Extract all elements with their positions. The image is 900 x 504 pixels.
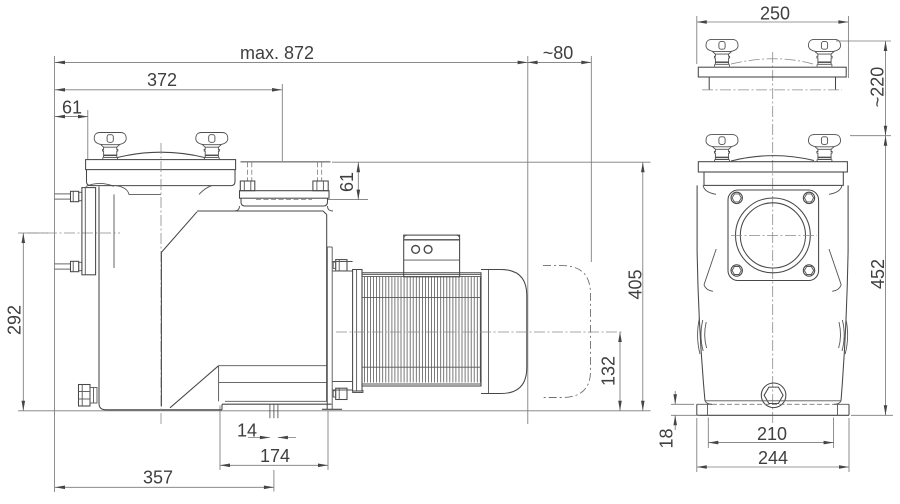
svg-text:210: 210 bbox=[757, 424, 787, 444]
dimension 250 extensions bbox=[696, 16, 698, 64]
upper lid lower plate phantom bottom bbox=[702, 89, 842, 91]
lower lid top plate bbox=[698, 162, 847, 172]
body bottom edge bbox=[705, 400, 841, 402]
dimension ~80 arrows bbox=[528, 61, 538, 65]
svg-text:61: 61 bbox=[337, 172, 357, 192]
dimension 452 arrows bbox=[884, 136, 888, 146]
strainer lid clamp ring bbox=[87, 170, 236, 186]
dimension 292 line bbox=[22, 233, 24, 411]
dimension 452 line bbox=[885, 136, 887, 416]
motor axis centreline bbox=[336, 331, 624, 333]
lower lid knob 2 bbox=[809, 135, 841, 162]
suction flange plate bbox=[82, 188, 96, 275]
dimension max. 872 line bbox=[55, 61, 528, 63]
svg-text:244: 244 bbox=[758, 448, 788, 468]
discharge cover plate bbox=[240, 191, 330, 199]
dimension 174 line bbox=[220, 464, 328, 466]
svg-text:292: 292 bbox=[4, 305, 24, 335]
svg-text:14: 14 bbox=[237, 421, 257, 441]
terminal box glands bbox=[412, 246, 420, 254]
dimension 250 line bbox=[697, 21, 849, 23]
dimension 174 arrows bbox=[220, 464, 230, 468]
extension line x=282 (discharge centre) bbox=[281, 84, 283, 161]
volute lower step bbox=[219, 365, 327, 367]
discharge cover top edge bbox=[241, 161, 331, 163]
volute bottom / foot bbox=[221, 404, 223, 410]
volute top edge bbox=[197, 211, 327, 215]
flange bolt bottom-left bbox=[731, 265, 742, 276]
drain spigot bbox=[269, 404, 271, 418]
svg-text:357: 357 bbox=[143, 468, 173, 488]
strainer lid top plate bbox=[86, 160, 236, 170]
dimension 61 arrows bbox=[55, 115, 65, 119]
dimension 14 arrows bbox=[260, 436, 270, 440]
svg-text:61: 61 bbox=[62, 98, 82, 118]
port horizontal centreline bbox=[731, 234, 817, 236]
flange bolt bottom bbox=[336, 388, 347, 399]
volute lower step 2 bbox=[219, 381, 327, 383]
discharge cover lower band bbox=[241, 198, 328, 206]
body side pocket left bbox=[698, 318, 700, 354]
dimension 132 arrows bbox=[618, 332, 622, 342]
svg-text:18: 18 bbox=[657, 428, 677, 448]
body lug top-right bbox=[829, 185, 842, 194]
dimension 61 line bbox=[55, 116, 88, 118]
dimension 405 arrows bbox=[641, 162, 645, 172]
body chamfer left bbox=[704, 249, 716, 285]
dimension 452 extension bbox=[851, 414, 893, 416]
tank neck fillet right bbox=[199, 186, 212, 195]
svg-text:132: 132 bbox=[599, 356, 619, 386]
tank drain boss bbox=[79, 385, 91, 407]
volute front diagonal bbox=[161, 212, 197, 253]
dimension 132 line bbox=[619, 332, 621, 411]
extended motor dashed outline bbox=[543, 266, 591, 398]
dimension 18 extensions bbox=[671, 403, 694, 405]
dimension 250 arrows bbox=[697, 20, 707, 24]
dimension 405 line bbox=[642, 162, 644, 411]
dimension 174 extensions bbox=[219, 406, 221, 471]
svg-text:405: 405 bbox=[625, 269, 645, 299]
flange bolt top-left bbox=[731, 192, 742, 203]
dimension 292 extension bbox=[18, 232, 48, 234]
base plate bottom bbox=[697, 414, 849, 416]
suction flange stud 1 bbox=[55, 193, 71, 195]
svg-text:372: 372 bbox=[147, 70, 177, 90]
svg-text:174: 174 bbox=[260, 446, 290, 466]
port outer circle bbox=[736, 198, 811, 273]
suction flange stud 2 bbox=[55, 263, 71, 265]
dimension 61r line bbox=[357, 162, 359, 199]
dimension 357 extension bbox=[273, 470, 275, 492]
dimension ~220 arrows bbox=[884, 41, 888, 51]
dimension 292 arrows bbox=[22, 233, 26, 243]
dimension 244 line bbox=[697, 466, 849, 468]
dimension 18 line bbox=[674, 391, 676, 404]
upper lid knob 2 bbox=[809, 39, 841, 66]
upper lid lower plate bbox=[708, 77, 710, 90]
motor body bbox=[362, 273, 481, 386]
svg-text:~80: ~80 bbox=[543, 43, 574, 63]
suction flange nut 2 bbox=[71, 261, 79, 271]
discharge cover nut right bbox=[313, 181, 328, 191]
upper lid dome (phantom) bbox=[731, 59, 813, 64]
motor body bands bbox=[362, 274, 481, 276]
discharge cover hidden studs bbox=[247, 162, 249, 181]
lower lid dome bbox=[731, 156, 814, 161]
volute front edge bbox=[160, 252, 162, 406]
dimension ~220 extensions bbox=[836, 40, 891, 42]
flange bolt top bbox=[336, 260, 347, 271]
tank centreline bbox=[160, 143, 162, 424]
extension line y=162 (pump top level) bbox=[332, 161, 651, 163]
dimension 61r extension bbox=[328, 199, 368, 201]
dimension 372 arrows bbox=[55, 88, 65, 92]
strainer lid dome bbox=[117, 152, 205, 157]
dimension ~220 line bbox=[885, 41, 887, 136]
dimension 210 line bbox=[708, 442, 833, 444]
motor cooling fins bbox=[363, 277, 365, 383]
extension line x=591 (extended motor end) bbox=[590, 56, 592, 262]
discharge cover nut left bbox=[240, 181, 255, 191]
dimension 372 line bbox=[55, 89, 282, 91]
lower lid lower plate bbox=[704, 172, 843, 185]
base plate steps bbox=[707, 404, 709, 415]
upper lid knob 1 bbox=[706, 39, 738, 66]
suction flange square bbox=[728, 190, 819, 281]
flange bolt bottom-right bbox=[803, 265, 814, 276]
svg-text:452: 452 bbox=[868, 259, 888, 289]
volute lower diagonal bbox=[170, 366, 219, 408]
dimension 210 arrows bbox=[708, 441, 718, 445]
strainer tank wall bbox=[99, 187, 222, 410]
motor adapter bbox=[332, 270, 352, 272]
discharge cover hidden joint bbox=[256, 199, 312, 201]
tank shoulder left bbox=[86, 183, 114, 186]
port inner circle bbox=[740, 203, 805, 268]
motor end cap bbox=[480, 273, 482, 386]
drain plug bbox=[761, 383, 786, 408]
dimension 357 line bbox=[55, 486, 274, 488]
volute right edge bbox=[326, 215, 328, 402]
lid knob 2 bbox=[196, 133, 228, 160]
extension line left (inlet face) bbox=[54, 56, 56, 492]
body chamfer right bbox=[829, 249, 841, 285]
suction flange nut 1 bbox=[71, 191, 79, 201]
extension line x=88 (tank flange face) bbox=[87, 110, 89, 160]
dimension 244 extensions bbox=[696, 418, 698, 472]
body side pocket right bbox=[845, 318, 847, 354]
body lug top-left bbox=[703, 185, 716, 194]
dimension 210 extensions bbox=[707, 418, 709, 449]
dimension max. 872 arrows bbox=[55, 61, 65, 65]
mounting flange bbox=[326, 247, 328, 409]
svg-text:250: 250 bbox=[760, 4, 790, 24]
upper lid top plate bbox=[698, 67, 846, 77]
pump body edge right bbox=[841, 185, 848, 400]
svg-text:~220: ~220 bbox=[867, 67, 887, 108]
terminal box bbox=[404, 235, 460, 277]
dimension 18 arrows bbox=[673, 394, 677, 404]
dimension 61r arrows bbox=[357, 162, 361, 172]
dimension 357 arrows bbox=[55, 486, 65, 490]
motor flange foot bbox=[353, 390, 363, 393]
lid knob 1 bbox=[94, 133, 126, 160]
lower lid knob 1 bbox=[706, 135, 738, 162]
flange bolt top-right bbox=[803, 192, 814, 203]
dimension ~80 line bbox=[528, 61, 592, 63]
tank neck fillet left bbox=[116, 186, 161, 195]
extension line y=411 (base level) bbox=[18, 410, 651, 412]
extension line x=528 (motor end) bbox=[527, 56, 529, 424]
base plate sides bbox=[696, 404, 698, 415]
suction port centreline bbox=[28, 232, 120, 234]
svg-text:max. 872: max. 872 bbox=[240, 43, 314, 63]
motor flange plate bbox=[353, 270, 362, 392]
cover-to-volute fillets bbox=[234, 206, 240, 211]
base plate top visible bbox=[697, 403, 712, 405]
pump body edge left bbox=[697, 185, 705, 400]
base plate top hidden bbox=[712, 403, 834, 405]
front view centreline bbox=[772, 52, 774, 424]
dimension 14 lines bbox=[248, 437, 270, 439]
dimension 244 arrows bbox=[697, 465, 707, 469]
body-base fillets bbox=[705, 401, 712, 405]
